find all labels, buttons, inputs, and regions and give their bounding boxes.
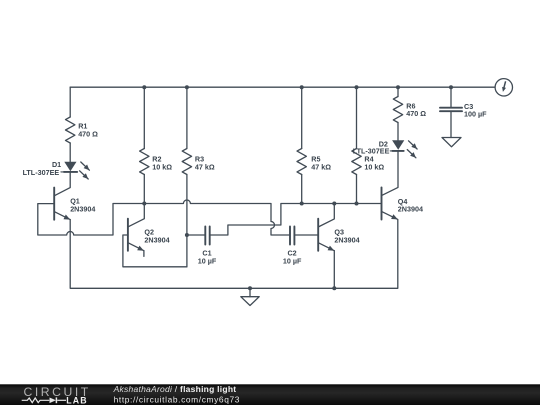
svg-text:2N3904: 2N3904: [144, 235, 169, 244]
svg-text:LTL-307EE: LTL-307EE: [353, 147, 390, 156]
svg-text:47 kΩ: 47 kΩ: [311, 162, 331, 171]
svg-text:2N3904: 2N3904: [398, 205, 423, 214]
svg-text:470 Ω: 470 Ω: [406, 109, 426, 118]
svg-text:47 kΩ: 47 kΩ: [195, 162, 215, 171]
svg-text:2N3904: 2N3904: [334, 235, 359, 244]
svg-text:10 kΩ: 10 kΩ: [364, 162, 384, 171]
svg-text:10 kΩ: 10 kΩ: [152, 162, 172, 171]
svg-text:10 µF: 10 µF: [283, 257, 302, 266]
svg-text:LAB: LAB: [66, 396, 87, 405]
svg-text:2N3904: 2N3904: [70, 204, 95, 213]
svg-text:100 µF: 100 µF: [464, 110, 487, 119]
svg-text:AkshathaArodi / flashing light: AkshathaArodi / flashing light: [113, 384, 237, 394]
svg-text:10 µF: 10 µF: [198, 257, 217, 266]
svg-text:http://circuitlab.com/cmy6q73: http://circuitlab.com/cmy6q73: [114, 394, 240, 404]
svg-text:LTL-307EE: LTL-307EE: [23, 168, 60, 177]
svg-text:470 Ω: 470 Ω: [78, 130, 98, 139]
